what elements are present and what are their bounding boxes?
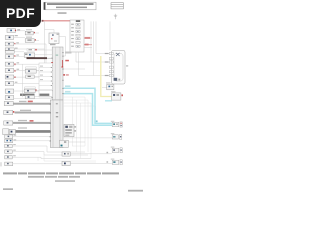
cyan wire 2 [63, 94, 112, 126]
red tick on bus edge [51, 62, 53, 63]
sensor with shielded cable 2 [4, 110, 51, 115]
wire col2 row3 to bus [37, 49, 52, 51]
connector row 21 [1, 162, 62, 166]
wire [44, 21, 46, 63]
switch col2 row6 [26, 75, 39, 78]
label col2 row3 [27, 49, 37, 52]
switch col2 row5 [25, 67, 39, 73]
connector row 8 [5, 75, 39, 79]
splice mark before C4 [107, 161, 109, 162]
fuse box F [70, 20, 84, 52]
wire [53, 30, 55, 34]
connector row 19 [5, 150, 88, 155]
switch col2 row8 [25, 95, 52, 98]
connector row 7 [5, 69, 39, 73]
relay col2 row1 [25, 29, 39, 35]
collector wire col2 [22, 64, 24, 97]
yellow wire [101, 56, 112, 97]
connector row 20 [5, 155, 91, 159]
bus pin ticks left [49, 58, 52, 142]
splice mark before C3 [107, 152, 109, 153]
connector row 10 [5, 89, 39, 93]
component right of bus mid [63, 124, 76, 136]
connector row 5 [5, 55, 24, 59]
antenna glyph [114, 14, 117, 19]
connector row 1 [7, 29, 25, 33]
nested harness boxes right of bus [38, 97, 96, 161]
cyan stub [105, 100, 112, 102]
title block subtext [58, 12, 67, 14]
title block [44, 2, 96, 10]
heavy wire to bus [27, 57, 48, 59]
red branch on bus [61, 60, 63, 67]
cyan wire 1 [63, 88, 112, 123]
ladder box [39, 63, 52, 97]
splice on cyan wire [96, 120, 98, 122]
connector row 9 [5, 82, 39, 86]
connector C1 right [111, 121, 122, 127]
bus right edge pin ticks [62, 52, 64, 94]
red wire [84, 37, 92, 39]
right cluster box U1 [112, 51, 126, 85]
connector row 11 [5, 96, 52, 100]
switch col2 row4 [24, 53, 35, 57]
wire col2 row4 to bus [35, 54, 53, 56]
sensor with heavy cable 4 [3, 127, 51, 134]
footnote line 3 [55, 180, 75, 182]
relay K1 [49, 33, 66, 56]
red wire [84, 44, 92, 46]
switch col2 row7 [24, 87, 52, 93]
connector C3 right [111, 147, 122, 153]
connector row 18 [5, 144, 85, 152]
central bus connector strip [50, 44, 63, 148]
info table top right [111, 3, 123, 9]
sensor with shielded cable 3 [4, 120, 51, 125]
footnote line 1 [3, 172, 119, 174]
PDF badge overlay [0, 0, 41, 27]
wires from fuse box area down [63, 21, 110, 75]
connector row 2 [5, 35, 25, 39]
connector row 3 [5, 42, 46, 63]
inline connector on wire 3 [62, 161, 112, 165]
connector row 4 (tall) [5, 48, 44, 54]
cluster pins [109, 52, 113, 76]
wire [45, 29, 55, 31]
wire [84, 47, 92, 49]
sensor with shielded cable 1 [4, 101, 50, 106]
relay col2 row2 [25, 37, 39, 43]
inline connector on wire 1 [60, 140, 86, 147]
harness bottom line [66, 162, 96, 164]
connector row 17 [5, 139, 51, 143]
bottom right page number [128, 190, 143, 192]
PDF badge label text [0, 0, 41, 27]
connector B1 right [102, 82, 114, 89]
connector C2 right [111, 133, 122, 139]
red feed wire [43, 20, 71, 22]
connector row 16 [5, 135, 51, 139]
inline connector on wire 2 [62, 152, 112, 156]
wire to connector C2 [63, 137, 112, 139]
fuse box red output labels [85, 37, 90, 39]
wire labels right of bus [65, 52, 72, 54]
bottom left date [3, 188, 13, 190]
connector C4 right [111, 159, 122, 165]
connector B2 right [111, 91, 123, 100]
label under col2 [20, 94, 35, 96]
footnote line 2 [28, 176, 80, 178]
connector row 6 [5, 62, 39, 66]
